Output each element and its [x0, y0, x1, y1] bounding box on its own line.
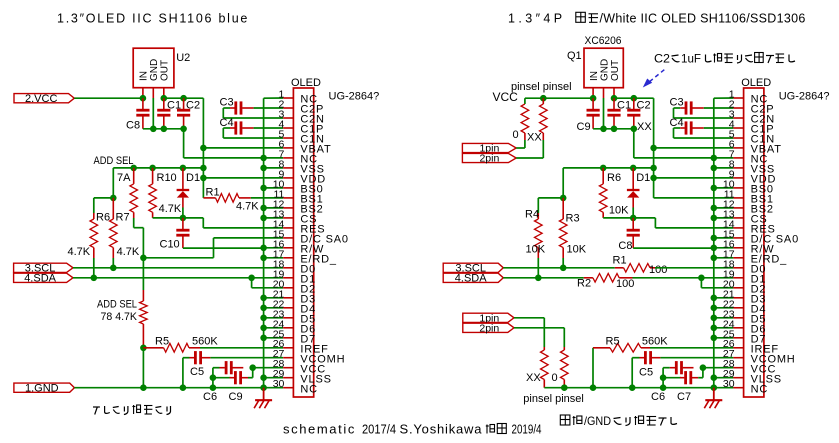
wire C3 left loop to row3 [223, 107, 230, 109]
wire row7 to bus right [634, 157, 714, 159]
wire C5 right to pin27 VCOMH [210, 357, 283, 359]
capacitor C9 [213, 377, 231, 379]
left pin 25 stub and label D7 [283, 337, 293, 339]
capacitor C8 right [627, 229, 640, 232]
svg-text:OLED: OLED [291, 77, 321, 89]
GND rail right [544, 387, 733, 389]
wire row22 to pin right [714, 307, 734, 309]
capacitor C3 right [685, 101, 688, 114]
right pin 8 stub and label VSS [733, 167, 743, 169]
wire row10 to pin right [714, 187, 734, 189]
pinsel resistor 0 bottom [563, 347, 565, 350]
right pin 14 stub and label RES [733, 227, 743, 229]
U2 pin IN [142, 88, 144, 99]
left pin 19 stub and label D1 [283, 277, 293, 279]
wire row29 bus to pin29 [264, 377, 284, 379]
junction VBAT row6 right [650, 145, 657, 152]
left pin 30 stub and label NC [283, 387, 293, 389]
wire row1 right [714, 97, 734, 99]
junction bus row21 right [711, 295, 718, 302]
wire to R6 top [94, 197, 114, 199]
junction GND bus row7 [260, 155, 267, 162]
capacitor C5 right [644, 351, 647, 364]
wire row9 right [654, 177, 734, 179]
junction GND bus row22 [260, 305, 267, 312]
wire row24 bus to pin24 [264, 327, 284, 329]
wire Q1 OUT rail [614, 97, 654, 99]
wire R5 to pin26 right [650, 347, 733, 349]
wire C4 right to pin4 r [704, 127, 734, 129]
junction C5 gnd on rail [180, 384, 187, 391]
junction GND bus row8 [260, 165, 267, 172]
svg-text:S.Yoshikawa: S.Yoshikawa [400, 422, 483, 437]
right pin 11 stub and label BS1 [733, 197, 743, 199]
wire cap rail down to row7 [183, 129, 185, 158]
junction C6/C9 gnd on rail [210, 384, 217, 391]
wire row15 to pin right [714, 237, 734, 239]
junction bus row13 right [711, 215, 718, 222]
svg-text:R6: R6 [607, 172, 621, 184]
svg-text:10K: 10K [609, 205, 629, 217]
junction GND bus row23 [260, 315, 267, 322]
svg-text:4.7K: 4.7K [68, 246, 91, 258]
capacitor C4 [234, 121, 237, 134]
title right kanji Haku-kou (White light) [576, 12, 586, 22]
wire R7 bottom to SCL row18 [112, 258, 114, 268]
svg-text:C3: C3 [220, 97, 234, 109]
wire row7 bus to pin7 [264, 157, 284, 159]
wire 2pin to XX resistor [516, 157, 543, 159]
left pin 29 stub and label VLSS [283, 377, 293, 379]
svg-text:2019/4: 2019/4 [512, 422, 542, 437]
left pin 20 stub and label D2 [283, 287, 293, 289]
U2 pin OUT [163, 88, 165, 99]
svg-text:pinsel pinsel: pinsel pinsel [523, 393, 584, 405]
svg-text:560K: 560K [642, 336, 668, 348]
svg-text:560K: 560K [192, 336, 218, 348]
right pin 3 stub and label C2N [733, 117, 743, 119]
resistor R1 4.7K [203, 197, 215, 199]
junction GND bus row13 [260, 215, 267, 222]
left pin 3 stub and label C2N [283, 117, 293, 119]
regulator Q1 XC6206 box [584, 48, 623, 87]
left pin 15 stub and label D/C SA0 [283, 237, 293, 239]
junction bus row7 right [711, 155, 718, 162]
resistor R6 4.7K [93, 213, 95, 219]
junction VBAT row6 [200, 145, 207, 152]
svg-text:R2: R2 [577, 278, 591, 290]
junction C5 gnd right [629, 384, 636, 391]
left pin 4 stub and label C1P [283, 127, 293, 129]
wire row8 to pin right [714, 167, 734, 169]
wire row24 to pin right [714, 327, 734, 329]
right pin 25 stub and label D7 [733, 337, 743, 339]
wire U2 GND down to cap rail [152, 98, 154, 129]
svg-text:1uF: 1uF [681, 52, 701, 66]
wire row25 to pin right [714, 337, 734, 339]
right pin 22 stub and label D4 [733, 307, 743, 309]
right pin 23 stub and label D5 [733, 317, 743, 319]
junction GND bus row24 [260, 325, 267, 332]
svg-text:C2: C2 [654, 52, 670, 66]
svg-text:4.7K: 4.7K [236, 201, 259, 213]
left pin 18 stub and label D0 [283, 267, 293, 269]
wire 1pin to XX bottom resistor [514, 317, 544, 319]
svg-text:78 4.7K: 78 4.7K [101, 311, 138, 323]
junction bus row8 right [711, 165, 718, 172]
wire row17 node to jog up row15 [143, 257, 213, 259]
wire R1 to pin11 [251, 197, 283, 199]
capacitor C6 right [675, 361, 678, 374]
junction bus row16 right [711, 245, 718, 252]
wire VDD vertical from OUT rail corner down to R1 [202, 98, 204, 198]
resistor 7A (address select) [133, 168, 135, 184]
wire caps gnd down to row7 right [633, 129, 635, 158]
right pin 6 stub and label VBAT [733, 147, 743, 149]
wire row11 BS1 right [654, 197, 734, 199]
left pin 12 stub and label BS2 [283, 207, 293, 209]
wire U2 OUT rail to VDD corner [164, 97, 204, 99]
junction R7 on SCL [110, 265, 117, 272]
diode D1 right [627, 189, 640, 191]
left pin 22 stub and label D4 [283, 307, 293, 309]
VDD vertical right [653, 98, 655, 198]
wire reset node jog to pin14 right [633, 217, 655, 219]
junction VDD row9 right [650, 175, 657, 182]
wire cap bottom rail [143, 128, 184, 130]
wire R3 bottom to SCL [562, 258, 564, 268]
svg-text:C5: C5 [190, 366, 204, 378]
U2 pin GND [152, 88, 154, 98]
capacitor C2 right [627, 109, 640, 112]
svg-text:C3: C3 [670, 97, 684, 109]
addsel rail row8 [113, 167, 203, 169]
svg-text:U2: U2 [176, 52, 190, 64]
wire row23 bus to pin23 [264, 317, 284, 319]
wire C5 right to pin27 r [660, 357, 733, 359]
wire row25 bus to pin25 [264, 337, 284, 339]
wire row7 to GND bus [184, 157, 264, 159]
right pin 27 stub and label VCOMH [733, 357, 743, 359]
svg-text:XX: XX [637, 121, 652, 133]
right pin 26 stub and label IREF [733, 347, 743, 349]
capacitor C9 right [587, 109, 600, 112]
pinsel resistor XX top [542, 98, 544, 104]
wire SCL row18 to pin18 [73, 267, 283, 269]
junction bus row10 right [711, 185, 718, 192]
svg-text:XX: XX [526, 372, 541, 384]
svg-text:UG-2864?: UG-2864? [329, 91, 380, 103]
resistor R1 100 right [624, 264, 650, 273]
right pin 29 stub and label VLSS [733, 377, 743, 379]
svg-text:GND: GND [149, 59, 160, 81]
junction C1 right rail [611, 126, 618, 133]
resistor R5 560K [143, 347, 163, 349]
right pin 15 stub and label D/C SA0 [733, 237, 743, 239]
left pin 23 stub and label D5 [283, 317, 293, 319]
svg-text:R1: R1 [613, 255, 627, 267]
wire C6 left down to rail [213, 367, 220, 369]
wire C4 right to pin4 [254, 127, 284, 129]
wire C9 right corner up to VCC node [248, 377, 253, 379]
left pin 26 stub and label IREF [283, 347, 293, 349]
junction GND bus row12 [260, 205, 267, 212]
capacitor C1 right [607, 109, 620, 112]
GND bus vertical right [713, 98, 715, 388]
junction R3 on SCL [560, 265, 567, 272]
wire jog row19 to row20 pin20 [251, 278, 253, 288]
left pin 7 stub and label NC [283, 157, 293, 159]
junction R5 gnd right [590, 384, 597, 391]
diode D1 [177, 189, 190, 191]
wire 2pin to 0 bottom resistor [514, 327, 564, 329]
right pin 28 stub and label VCC [733, 367, 743, 369]
left pin 2 stub and label C2P [283, 107, 293, 109]
capacitor C10 [176, 229, 189, 232]
svg-text:C8: C8 [618, 240, 632, 252]
svg-text:Q1: Q1 [567, 50, 582, 62]
wire row29 to pin right [714, 377, 734, 379]
wire C3 right to pin2 [254, 107, 284, 109]
svg-text:R5: R5 [155, 336, 169, 348]
right pin 21 stub and label D3 [733, 297, 743, 299]
connector J-left OLED 30-pin box [293, 88, 313, 397]
svg-text:2pin: 2pin [479, 322, 499, 334]
connector J-right OLED 30-pin box [744, 88, 764, 397]
wire row9 VDD to pin9 [203, 177, 283, 179]
junction GND bus row10 [260, 185, 267, 192]
left pin 11 stub and label BS1 [283, 197, 293, 199]
left pin 8 stub and label VSS [283, 167, 293, 169]
right pin 10 stub and label BS0 [733, 187, 743, 189]
left pin 5 stub and label C1N [283, 137, 293, 139]
junction R4 on SDA [535, 275, 542, 282]
Q1 pin GND [603, 88, 605, 98]
wire SCL right to R1 [503, 267, 615, 269]
wire row28 pin28 right [703, 367, 734, 369]
wire C5 left down to GND rail [183, 357, 190, 359]
wire SDA right to R2 [503, 277, 584, 279]
wire row21 to pin right [714, 297, 734, 299]
junction bus row25 right [711, 335, 718, 342]
junction VCC node row28 [249, 364, 256, 371]
left pin 21 stub and label D3 [283, 297, 293, 299]
flag 1pin top [462, 143, 516, 152]
junction R5 node [140, 345, 147, 352]
flag 4.SDA right [443, 273, 503, 282]
junction SA0 select node row17 [140, 254, 147, 261]
right pin 19 stub and label D1 [733, 277, 743, 279]
right pin 2 stub and label C2P [733, 107, 743, 109]
resistor R7 4.7K [112, 198, 114, 219]
wire C5 left down right ckt [632, 357, 639, 359]
capacitor C3 [234, 101, 237, 114]
svg-text:C10: C10 [160, 239, 180, 251]
junction GND bus on rail [260, 384, 267, 391]
junction R6 top right [600, 165, 607, 172]
wire ADD78 node down to GND rail [142, 348, 144, 388]
wire row13 to pin right [714, 217, 734, 219]
right pin 20 stub and label D2 [733, 287, 743, 289]
svg-text:OLED: OLED [741, 77, 771, 89]
right pin 9 stub and label VDD [733, 177, 743, 179]
junction C2 on rail / corner down [180, 126, 187, 133]
svg-text:OUT: OUT [610, 60, 621, 81]
svg-text:100: 100 [616, 278, 634, 290]
svg-text:100: 100 [649, 264, 667, 276]
wire R6 bottom to D1 node right [603, 217, 633, 219]
junction bus row12 right [711, 205, 718, 212]
capacitor C7 [663, 377, 681, 379]
annotation power gnd setting [560, 415, 570, 425]
svg-text:C7: C7 [677, 391, 691, 403]
junction gnd pin right rail [600, 126, 607, 133]
svg-text:C2: C2 [637, 100, 651, 112]
svg-text:R1: R1 [206, 187, 220, 199]
cap rail right [593, 128, 634, 130]
flag 3.SCL right [443, 263, 503, 272]
svg-text:IN: IN [139, 71, 150, 81]
left pin 14 stub and label RES [283, 227, 293, 229]
GND bus vertical left circuit [263, 98, 265, 388]
wire row1 bus corner to pin1 [264, 97, 284, 99]
svg-text:4.7K: 4.7K [117, 246, 140, 258]
capacitor C4 right [685, 121, 688, 134]
junction C2 right rail corner [631, 126, 638, 133]
svg-text:R3: R3 [566, 213, 580, 225]
right pin 18 stub and label D0 [733, 267, 743, 269]
left pin 16 stub and label R/W [283, 247, 293, 249]
svg-text:4.7K: 4.7K [159, 203, 182, 215]
svg-text:30: 30 [723, 378, 735, 390]
svg-text:NC: NC [751, 383, 769, 395]
junction OUT / C1 right [611, 95, 618, 102]
wire jog to pin20 right [700, 278, 702, 288]
wire C6 left down r [663, 367, 670, 369]
svg-text:pinsel pinsel: pinsel pinsel [511, 81, 572, 93]
svg-text:OUT: OUT [160, 60, 171, 81]
junction SDA jog right [698, 275, 705, 282]
right pin 17 stub and label E/RD_ [733, 257, 743, 259]
svg-text:IN: IN [589, 71, 600, 81]
flag 3.SCL [14, 263, 73, 272]
svg-text:C9: C9 [577, 121, 591, 133]
resistor R2 100 right [584, 277, 593, 279]
svg-text:XC6206: XC6206 [585, 35, 622, 47]
right pin 30 stub and label NC [733, 387, 743, 389]
pinsel resistor 0 top [524, 98, 526, 104]
wire 2.VCC to U2 IN [74, 97, 143, 99]
junction R6/R7 split [110, 195, 117, 202]
junction bus row17 right [711, 254, 718, 261]
junction OUT / C1 [161, 95, 168, 102]
svg-text:UG-2864?: UG-2864? [779, 91, 830, 103]
right pin 7 stub and label NC [733, 157, 743, 159]
left pin 10 stub and label BS0 [283, 187, 293, 189]
wire C4 loop right [674, 127, 681, 129]
svg-text:R6: R6 [96, 212, 110, 224]
wire C4 left loop to row5 [223, 127, 230, 129]
svg-text:C8: C8 [126, 120, 140, 132]
wire C8 bottom row16 right [633, 247, 714, 249]
junction C1 on rail [161, 126, 168, 133]
svg-text:D1: D1 [636, 172, 650, 184]
svg-text:10K: 10K [567, 244, 587, 256]
junction GND bus row17 [260, 254, 267, 261]
annotation address setting [93, 406, 100, 408]
junction C2 top right [631, 95, 638, 102]
junction D1 top [180, 165, 187, 172]
svg-text:2pin: 2pin [479, 153, 499, 165]
wire R2 to jog right [633, 277, 734, 279]
junction bus row15 right [711, 235, 718, 242]
junction rail row8 right [650, 165, 657, 172]
left pin 6 stub and label VBAT [283, 147, 293, 149]
junction bus row16 [260, 245, 267, 252]
svg-text:C5: C5 [639, 366, 653, 378]
left pin 1 stub and label NC [283, 97, 293, 99]
wire C10 bottom to row16 bus [183, 247, 264, 249]
note arrow dashed blue [648, 70, 665, 84]
wire row12 to pin right [714, 207, 734, 209]
left pin 9 stub and label VDD [283, 177, 293, 179]
junction VDD row9 [200, 175, 207, 182]
wire row6 right [654, 147, 734, 149]
svg-text:1.3″OLED IIC SH1106 blue: 1.3″OLED IIC SH1106 blue [57, 11, 249, 25]
left pin 27 stub and label VCOMH [283, 357, 293, 359]
svg-text:D1: D1 [186, 172, 200, 184]
wire R6 bottom to SDA row19 [93, 258, 95, 278]
GND rail left circuit [74, 387, 283, 389]
junction SDA jog to D2 [248, 275, 255, 282]
wire row7 to pin7 right [714, 157, 734, 159]
regulator U2 box [133, 48, 174, 87]
junction pinsel XX top [540, 95, 547, 102]
svg-text:7A: 7A [117, 172, 131, 184]
svg-text:1.GND: 1.GND [25, 382, 59, 394]
flag 2pin bottom [463, 323, 514, 332]
wire to R4 top [538, 197, 563, 199]
left pin 13 stub and label CS [283, 217, 293, 219]
rail row8 right (R6/D1) [563, 167, 653, 169]
resistor R5 560K right [592, 348, 594, 388]
junction GND bus row25 [260, 335, 267, 342]
wire row17 to pin right [714, 257, 734, 259]
junction 0 resistor on rail [561, 384, 568, 391]
junction 7A resistor top [130, 165, 137, 172]
svg-text:R4: R4 [525, 209, 539, 221]
svg-text:ADD SEL: ADD SEL [94, 155, 134, 167]
junction R10 top [149, 165, 156, 172]
svg-text:0: 0 [513, 129, 519, 141]
capacitor C2 [177, 109, 190, 112]
flag 4.SDA [14, 273, 73, 282]
Q1 pin IN [592, 88, 594, 99]
svg-text:30: 30 [273, 378, 285, 390]
junction on GND rail x143 [140, 384, 147, 391]
svg-text:4.SDA: 4.SDA [24, 272, 56, 284]
resistor R3 10K [562, 198, 564, 219]
svg-text:C6: C6 [203, 391, 217, 403]
svg-text:XX: XX [527, 132, 542, 144]
svg-text:R5: R5 [606, 336, 620, 348]
capacitor C6 [225, 361, 228, 374]
wire C3 right to pin2 r [704, 107, 734, 109]
svg-text:/GND: /GND [584, 414, 611, 428]
junction C7 left r [660, 374, 667, 381]
junction bus row23 right [711, 315, 718, 322]
svg-text:schematic: schematic [283, 422, 356, 437]
